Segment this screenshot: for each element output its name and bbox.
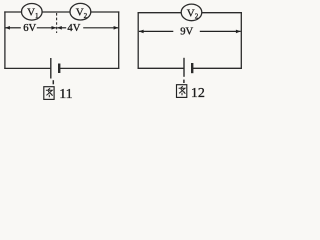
wire: top-left segment [138,12,182,14]
wire: right edge of loop [118,11,120,69]
wire: bottom-right segment [192,67,242,69]
6V span arrow [5,23,56,34]
svg-text:4V: 4V [67,23,80,34]
voltmeter V2 [70,3,91,20]
wire: top-left segment [4,11,21,13]
wire: left edge of loop [137,12,139,69]
stray mark above caption 12 [183,80,185,83]
wire: left edge of loop [4,11,6,69]
battery B1 [51,58,59,79]
4V span arrow [57,23,118,34]
svg-text:12: 12 [191,86,205,101]
voltmeter V1 [22,4,43,21]
9V span arrow [139,27,241,38]
wire: top-right segment [202,12,242,14]
right circuit: figure 12 [138,4,242,77]
wire: bottom-left segment [4,67,51,69]
wire: top-right segment [91,11,120,13]
node: dashed divider between V1 and V2 sections [56,13,58,33]
voltmeter V2 (figure 12) [181,4,202,21]
wire: bottom-left segment [138,67,184,69]
wire: top-middle segment [42,11,70,13]
left circuit: figure 11 [4,3,119,78]
battery B2 [184,58,192,77]
wire: bottom-right segment [59,67,119,69]
svg-text:6V: 6V [23,23,36,34]
stray mark above caption 11 [52,80,54,84]
wire: right edge of loop [240,12,242,69]
svg-text:11: 11 [59,87,72,102]
caption 图 12 [177,85,205,101]
svg-text:9V: 9V [180,27,193,38]
caption 图 11 [44,87,73,103]
